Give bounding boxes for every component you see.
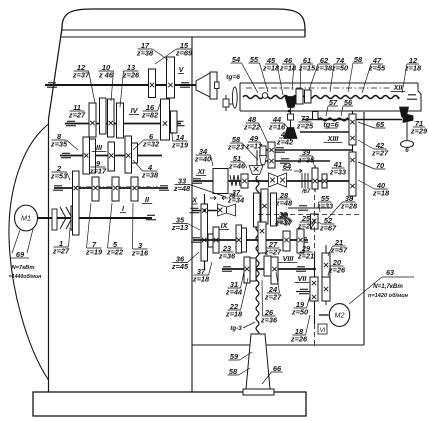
knee right edge [363,112,365,345]
gear z16 on shaft II [131,177,138,201]
svg-text:VIII: VIII [283,254,295,263]
svg-text:z=27: z=27 [297,222,315,231]
motor M2 [329,304,349,327]
label 34 z40 [194,147,213,166]
leader M1 to label 69 [12,230,20,253]
gear 52 z67 [311,214,319,229]
svg-text:z=26: z=26 [122,71,140,80]
label 2 z53 [50,164,70,181]
cross feed screw wavy [318,118,348,121]
label 65 [358,120,386,129]
svg-text:z=25: z=25 [296,122,314,131]
gear z37 on IX [258,222,266,253]
gear 65 on x352 [349,114,356,145]
label 70 [358,161,386,170]
svg-text:70: 70 [376,161,385,170]
label 37 z34 [227,188,244,205]
svg-text:z=36: z=36 [218,252,236,261]
label 58 z23 [227,135,258,160]
label 14 z19 [171,132,189,150]
svg-text:z=27: z=27 [52,247,70,256]
gear block on vertical shaft [201,204,208,261]
motor M1 [15,205,38,231]
vertical shaft x204 [204,194,206,270]
shaft VII stub [296,291,312,293]
table box right [412,83,421,111]
label 30 z37 [274,210,292,227]
bearing shaft VII [299,289,309,293]
nut gear left [254,193,261,227]
label 20 z26 [328,258,346,276]
shaft IX numeral [219,221,229,230]
gear 20 z26 [322,277,330,301]
svg-text:tg=6: tg=6 [226,74,240,81]
label 31 z44 [225,272,244,297]
leader M2 to label 63 [349,277,382,304]
gear column x326 [325,245,327,305]
spindle arbor stub [215,82,220,89]
svg-text:z=17: z=17 [89,167,107,176]
label 25 z27 [297,214,315,231]
svg-text:z=27: z=27 [68,111,86,120]
bevel pair at handwheel [400,107,409,117]
svg-text:z=67: z=67 [319,224,337,233]
svg-text:z=21: z=21 [297,252,314,261]
label 29 z21 [297,244,314,261]
spindle nose bar [210,72,217,99]
short shaft y208 [288,207,330,209]
cross feed shaft [302,119,402,121]
label 9 z17 [89,159,107,176]
bearing shaft XI left [192,179,202,183]
base plate [33,392,306,416]
svg-text:n=1420 об/мин: n=1420 об/мин [368,292,409,299]
bearing shaft IV left [66,121,76,125]
svg-text:M2: M2 [335,310,345,319]
junction dot vertical shaft top [203,209,206,212]
label 21 z57 [328,238,348,256]
gear z37 on shaft IV [89,103,96,137]
vertical link x257 [256,150,258,166]
gear left of screw [250,258,256,281]
label 15 z69 [155,41,193,64]
screw nut ball [262,93,268,99]
label 19 z50 [291,296,310,317]
svg-text:tg-3: tg-3 [230,325,242,332]
svg-text:z=27: z=27 [371,149,389,158]
label 26 z36 [260,280,278,325]
shaft IX [193,239,308,241]
gear z26 on shaft IV [117,103,124,138]
label 3 z16 [131,203,149,258]
shaft XII numeral [391,83,406,92]
label 30 z37 [275,211,293,228]
gear z38b on shaft V [149,69,156,98]
gear z19 on shaft IV [171,111,178,133]
label 59 [229,352,253,361]
svg-text:6: 6 [405,147,409,154]
label 58 screw [228,367,251,376]
shaft I [38,217,153,219]
label 36 z45 [171,252,199,271]
label 51 z46 [228,154,247,171]
label 64 [282,162,292,171]
vertical shaft X numeral [191,196,198,205]
shaft XIII [262,149,352,151]
shaft IV numeral [129,106,139,115]
svg-text:z=32: z=32 [142,140,160,149]
svg-text:75: 75 [229,194,236,200]
gear on shaft XI right [241,174,248,188]
middle vertical shaft x322 [314,165,316,192]
gear z38 on screw [305,90,312,103]
svg-text:z=18: z=18 [279,64,297,73]
svg-text:59: 59 [230,352,239,361]
bearing shaft II left [53,186,63,190]
shaft IV [65,123,181,125]
svg-text:z=22: z=22 [243,123,261,132]
label 47 z55 [362,56,386,93]
bearing shaft V right [180,83,190,87]
gear z50 on M2 shaft [310,277,318,301]
label 69 [11,250,29,259]
label 61 z15 [298,56,316,92]
elastic coupling on shaft I [60,207,72,229]
bevel on table nut upper [285,97,297,108]
shaft II [54,187,168,189]
shaft XIII numeral [324,134,343,143]
handwheel rod [406,118,408,140]
gear 39 on x315 [312,168,318,189]
label 71 z29 [410,119,428,136]
label 46 z18 [279,56,297,90]
label 10 z46 [98,63,114,101]
label 18 z26 [290,315,310,344]
spindle cone [196,73,210,97]
bearing y210 [190,208,200,212]
vertical gear shaft to M2 [314,253,316,324]
column left slanted edge [49,37,61,119]
svg-text:z=29: z=29 [410,127,428,136]
gear z27c on VIII [271,257,278,284]
bearing y150 [275,148,285,152]
svg-text:z=48: z=48 [275,199,293,208]
vertical stub above table box [225,95,227,111]
label 17 z38 [136,41,168,60]
svg-text:58: 58 [229,367,238,376]
svg-text:z=22: z=22 [106,248,124,257]
gear z36b on IX [242,228,247,252]
svg-text:z=45: z=45 [171,262,189,271]
shaft XIV stub [264,160,330,162]
bearing shaft V left [47,83,57,87]
svg-text:/67: /67 [301,189,311,195]
bearing shaft VIII left [222,267,232,271]
bearing shaft IV right [175,121,185,125]
label 12 z18 [402,56,422,93]
svg-text:VI: VI [320,328,326,334]
shaft V spindle line [45,84,203,86]
gear z35b on shaft III [90,139,96,173]
gear z44 on VIII [244,257,250,283]
label 23 z36 [218,244,236,261]
label 22 z18 [225,278,248,319]
svg-text:z=37: z=37 [72,71,90,80]
table box left [239,83,241,111]
gear z22 on shaft II [112,177,119,201]
gear z36 on IX [236,225,242,253]
column right vertical edge [191,37,193,392]
label 49 z13 [245,134,263,155]
belt pulley on shaft I [52,209,57,230]
block gear on shaft XI [213,169,228,194]
junction dot screw-shaft XI [256,180,259,183]
svg-text:55: 55 [250,55,259,64]
junction dot nut rod [288,110,291,113]
label 28 z48 [275,191,293,208]
svg-text:z=18: z=18 [372,189,390,198]
label 73 z25 [296,114,314,131]
dashed box around feed group [314,195,316,253]
arrows on shaft XI [210,196,228,200]
label 55 z33 [316,194,334,212]
svg-text:z=37: z=37 [274,218,292,227]
label 5 z22 [106,203,124,257]
column left vertical edge [48,119,50,392]
svg-text:N=7кВт: N=7кВт [11,265,34,271]
svg-text:z=33: z=33 [329,168,347,177]
knee bottom edge [192,344,364,346]
label 56 [341,98,353,116]
machine top cover outline [61,9,305,37]
shaft XI horizontal [193,180,356,182]
svg-text:54: 54 [232,55,240,64]
bearing y161 [280,159,290,163]
svg-text:=1440об/мин: =1440об/мин [9,273,42,280]
svg-text:IX: IX [221,221,229,230]
svg-text:z=19: z=19 [171,141,189,150]
dash-dot centerline shaft II block [76,186,158,188]
gear z69 on shaft V [167,57,175,98]
nut gear right [271,193,277,226]
label 58 top [348,55,363,92]
gear z35 on shaft III [83,137,90,174]
screw base pad [243,389,274,395]
shaft II numeral [142,195,152,204]
gear z32 on shaft III [125,136,132,173]
svg-text:III: III [96,143,103,152]
bevel with x below spindle area [249,166,263,175]
bearing shaft IX left [191,238,201,242]
label 48 z22 [243,115,268,143]
bearing table screw right [407,95,417,99]
label 41 z33 [329,160,347,177]
table screw left support oval [232,87,237,108]
gear z45 pair b [213,227,219,253]
label 24 z27 [264,272,282,302]
numeral VI boxed [318,324,327,334]
label 52 z67 [318,216,337,233]
svg-text:z=28: z=28 [340,202,358,211]
svg-text:z=57: z=57 [330,246,348,255]
svg-text:z=36: z=36 [260,316,278,325]
svg-text:z=53: z=53 [50,172,68,181]
shaft XI numeral [196,167,206,176]
svg-text:z=82: z=82 [141,111,159,120]
junction dot M2 column [313,268,316,271]
label 45 z18 [262,56,283,95]
gear 42/40 on x352 [349,152,356,196]
label 6 z32 [133,132,160,150]
label 43 z42 [276,130,294,147]
svg-text:z=18: z=18 [192,275,210,284]
svg-text:z=18: z=18 [225,310,243,319]
svg-text:z 46: z 46 [98,71,114,80]
shaft VIII numeral [279,254,298,263]
svg-text:XIII: XIII [327,134,340,143]
cover lower line 1 [62,29,305,31]
label 7 z19 [85,203,103,257]
gear z21 on IX [297,229,304,253]
svg-text:N=1,7кВт: N=1,7кВт [373,283,403,290]
svg-text:57: 57 [329,98,338,107]
gear z17 on shaft III [108,142,115,171]
gear z15 on screw [296,89,303,104]
label tg6 cross [323,120,339,129]
table box top [240,82,418,84]
shaft I numeral [120,204,126,213]
svg-text:z=38: z=38 [136,49,154,58]
svg-text:56: 56 [344,98,353,107]
shaft y210 stub [192,210,222,212]
svg-text:XII: XII [393,83,404,92]
bevel lower on nut shaft [284,128,297,139]
svg-text:tg=6: tg=6 [323,120,339,129]
label 35 z13 [171,215,200,232]
svg-text:z=38: z=38 [141,171,159,180]
shaft VII numeral [295,274,310,283]
shaft M2 [319,314,329,316]
label 33 z48 [173,176,226,197]
svg-text:z=69: z=69 [175,49,193,58]
label 37 z18 [192,262,212,284]
shaft III numeral [92,143,107,152]
gear small x324 [322,174,327,188]
label 40 z18 [358,180,390,198]
gear z46b on shaft IV [108,99,115,137]
gear 21 z57 [322,253,330,277]
label 39 z35 [297,148,315,165]
table lead screw wavy [243,95,399,98]
small gear-bevel pair left [260,146,266,157]
label 74 z50 [330,56,349,92]
label 8 z35 [50,132,78,150]
svg-text:z=40: z=40 [194,155,212,164]
svg-text:z=27: z=27 [264,248,282,257]
label 66 [262,364,283,384]
svg-text:z=48: z=48 [173,184,191,193]
svg-text:z=16: z=16 [131,249,149,258]
gear small on shaft I [71,206,77,230]
bearing shaft IX right [298,238,308,242]
gear on shaft XIII [268,142,275,168]
svg-text:z=19: z=19 [85,248,103,257]
label 55 [249,55,269,92]
svg-text:63: 63 [386,270,394,277]
table box bottom [240,110,418,112]
svg-text:z=27: z=27 [264,293,282,302]
svg-text:IV: IV [131,106,139,115]
gear z38 on shaft III [132,143,138,163]
svg-text:z=44: z=44 [225,288,242,297]
arrow near 64 [294,169,302,173]
svg-text:z=35: z=35 [50,140,68,149]
svg-text:z=35: z=35 [297,156,315,165]
svg-text:66: 66 [273,364,282,373]
motor housing arc [9,124,49,380]
label 57 [326,98,338,116]
svg-text:z=13: z=13 [171,223,189,232]
label 12 z37 [72,63,95,103]
gear z19b on shaft II [92,177,99,201]
label 42 z27 [358,140,389,158]
shaft V numeral [178,65,185,74]
svg-text:58: 58 [354,55,363,64]
label 13 z26 [120,63,140,107]
label 11 z27 [68,103,86,120]
svg-text:z=42: z=42 [276,138,294,147]
right vertical shaft upper x352 [352,111,354,200]
handwheel [401,141,414,148]
bearing shaft I right [146,215,156,219]
label 1 z27 [52,228,70,256]
gear z53 on shaft II [73,171,80,235]
label 62 z38 [308,56,333,93]
svg-text:z=23: z=23 [227,143,245,152]
nut gear mid [261,189,268,224]
label 44 z16 [268,115,288,132]
svg-text:VII: VII [298,274,308,283]
spring coupling on shaft XI [230,175,240,186]
shaft VIII [222,268,314,270]
label 16 z82 [141,103,160,120]
gear z82 on shaft IV [161,99,170,140]
svg-text:65: 65 [376,120,385,129]
clutch discs 67 [302,173,308,188]
shaft III [60,155,162,157]
shaft XIII upper [300,131,352,133]
svg-text:XI: XI [197,167,206,176]
label 54 [231,55,259,93]
bearing shaft II right [159,186,169,190]
gear z25 small on cross shaft [313,112,319,120]
vertical nut shaft [290,107,292,141]
svg-text:69: 69 [16,250,25,259]
label 38 z28 [328,194,358,218]
svg-text:z=46: z=46 [228,162,246,171]
svg-text:z=26: z=26 [290,335,308,344]
bearing shaft III left [61,153,71,157]
svg-text:z=50: z=50 [291,308,309,317]
label 4 z38 [133,160,159,180]
bearing shaft VIII right [296,267,306,271]
gear z46 on shaft IV [100,98,107,134]
screw telescopic cover [246,334,270,389]
gear right of screw [264,256,271,276]
table centerline dash-dot [246,87,390,89]
claw clutch 64 [269,173,278,187]
gear z27b on IX [283,231,290,251]
